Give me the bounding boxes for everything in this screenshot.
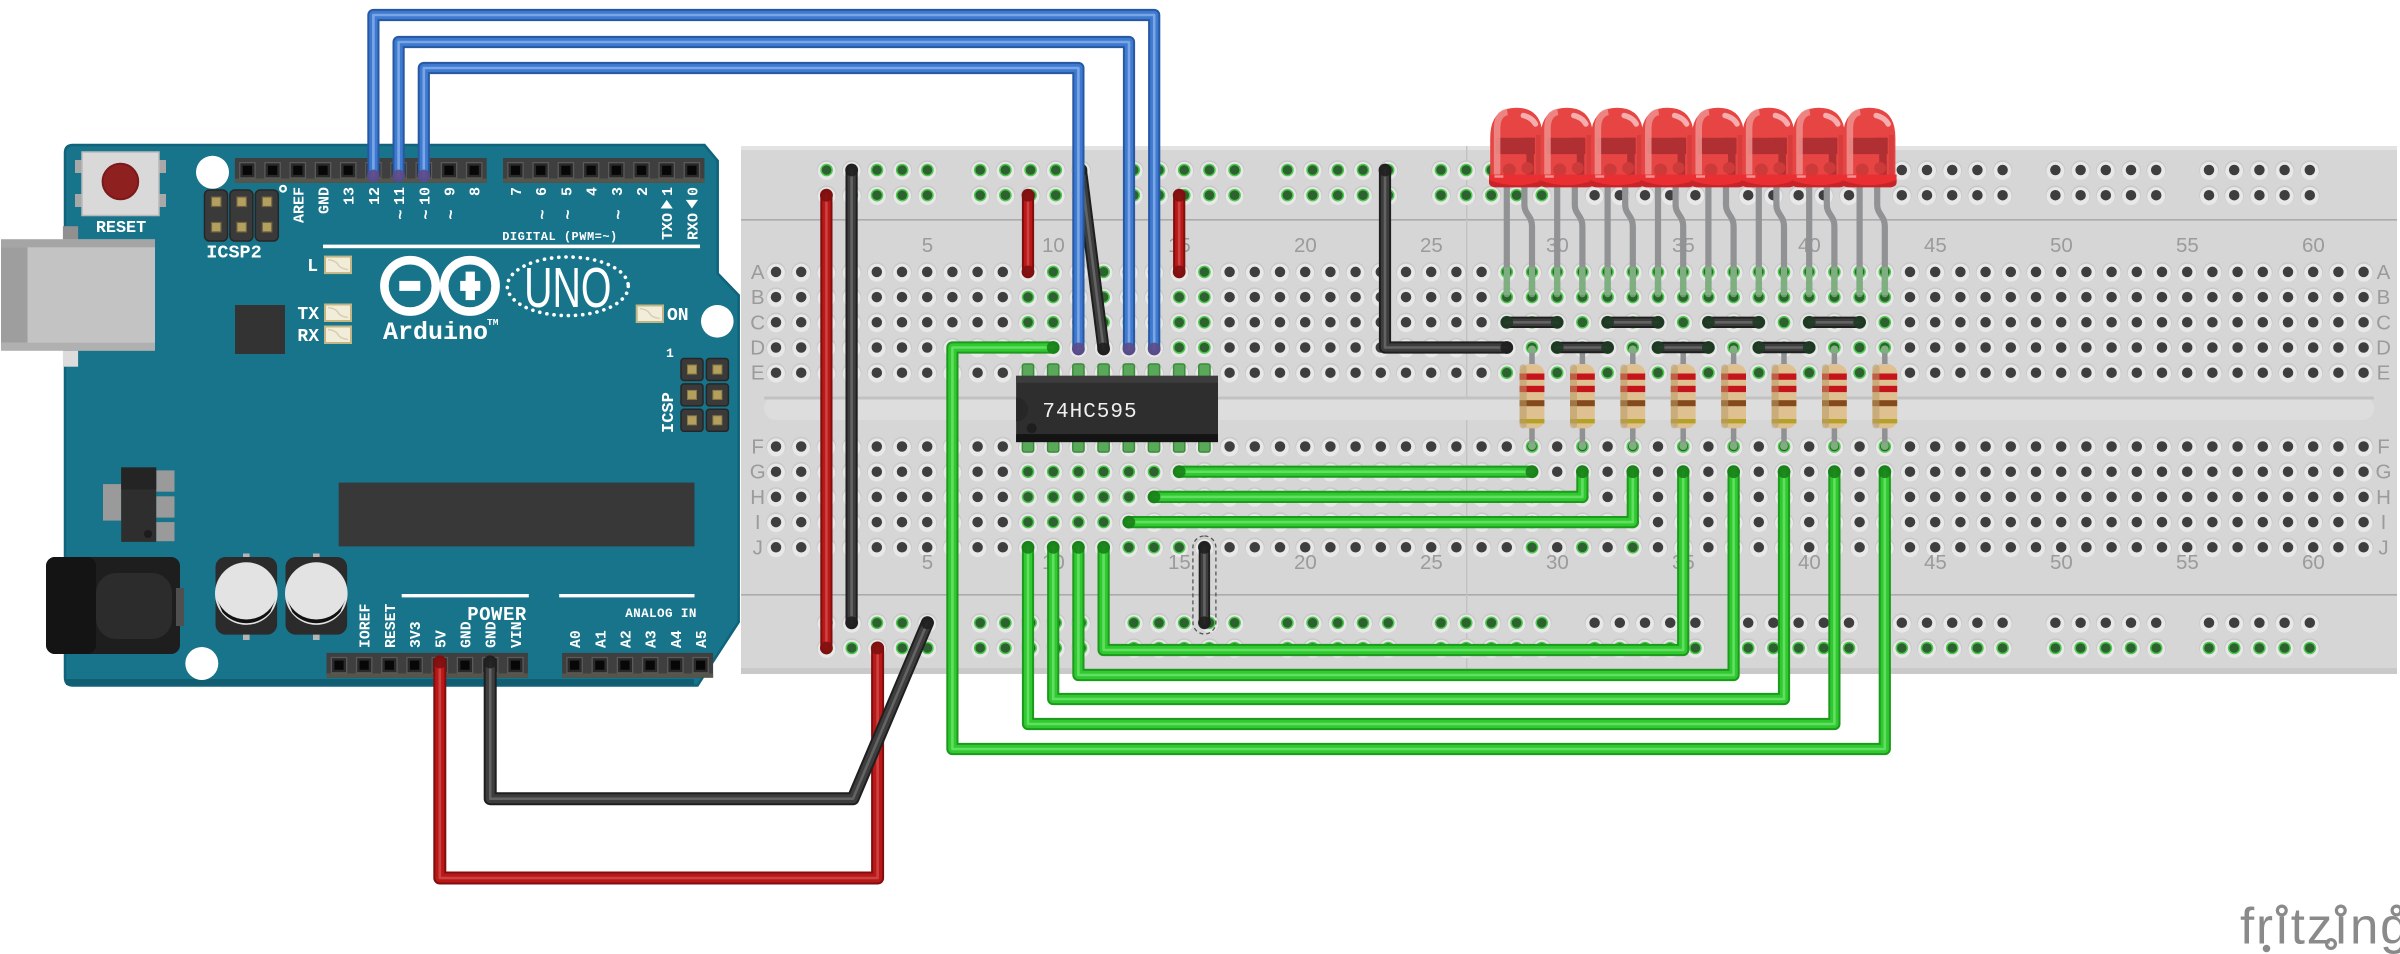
digital header 8-13 — [235, 158, 487, 183]
svg-text:F: F — [751, 436, 764, 459]
svg-text:IOREF: IOREF — [359, 604, 375, 648]
mounting hole — [185, 647, 218, 680]
svg-text:RESET: RESET — [384, 603, 400, 648]
chip — [235, 305, 285, 354]
wire green I13 to G33 — [1122, 465, 1639, 528]
Arduino UNO board — [65, 145, 739, 686]
power jack — [46, 557, 184, 654]
wire green J11 to G37 — [1072, 465, 1740, 675]
svg-text:J: J — [753, 536, 763, 559]
analog header — [562, 653, 713, 678]
svg-text:8: 8 — [468, 187, 485, 196]
svg-text:~: ~ — [418, 209, 437, 219]
digital header 0-7 — [503, 158, 704, 183]
svg-text:12: 12 — [367, 187, 384, 205]
wire red rail tie col1 — [820, 189, 833, 655]
svg-text:A0: A0 — [569, 630, 585, 648]
svg-text:A: A — [751, 261, 765, 284]
wire green G15 to G29 — [1173, 465, 1539, 478]
svg-text:2: 2 — [635, 187, 652, 196]
ICSP header — [681, 359, 728, 432]
LED LED6 red — [1741, 108, 1796, 295]
POWER label — [402, 594, 529, 597]
resistor R8 220ohm — [1872, 346, 1897, 451]
resistor R3 220ohm — [1620, 346, 1645, 451]
wire green J12 to G35 — [1097, 465, 1689, 650]
svg-text:~: ~ — [443, 209, 462, 219]
wire black rail tie col2 — [845, 164, 858, 630]
digital pin labels — [291, 187, 702, 240]
svg-text:A1: A1 — [594, 630, 610, 648]
power/analog pin labels — [359, 603, 711, 648]
svg-text:50: 50 — [2050, 234, 2073, 257]
svg-text:ICSP: ICSP — [660, 392, 679, 433]
svg-text:45: 45 — [1924, 551, 1947, 574]
resistor R1 220ohm — [1520, 346, 1545, 451]
breadboard labels — [750, 234, 2392, 574]
svg-text:ON: ON — [667, 306, 689, 326]
svg-text:0: 0 — [685, 187, 702, 196]
wire black jumper C36-C38 — [1702, 316, 1765, 329]
svg-text:~: ~ — [560, 209, 579, 219]
svg-text:45: 45 — [1924, 234, 1947, 257]
svg-text:I: I — [755, 511, 761, 534]
svg-text:5: 5 — [922, 551, 933, 574]
svg-text:55: 55 — [2176, 551, 2199, 574]
svg-text:~: ~ — [393, 209, 412, 219]
mounting hole — [701, 305, 734, 338]
LED LED8 red — [1842, 108, 1897, 295]
fritzing logo — [2240, 898, 2400, 954]
resistor R4 220ohm — [1671, 346, 1696, 451]
svg-text:30: 30 — [1546, 551, 1569, 574]
svg-text:10: 10 — [417, 187, 434, 205]
wire black jumper D30-D32 — [1551, 341, 1614, 354]
svg-text:5V: 5V — [434, 630, 450, 648]
wire blue pin11 to D13 — [392, 42, 1135, 355]
svg-text:C: C — [2376, 311, 2391, 334]
svg-text:frıtzıng: frıtzıng — [2240, 898, 2400, 954]
svg-text:A5: A5 — [695, 630, 711, 648]
wire black jumper C28-C30 — [1500, 316, 1563, 329]
USB connector — [1, 226, 155, 367]
wire black jumper D34-D36 — [1652, 341, 1715, 354]
wire green J9 to G41 — [1022, 465, 1841, 724]
LED LED4 red — [1640, 108, 1695, 295]
svg-text:9: 9 — [443, 187, 460, 196]
wire blue pin12 to D14 — [367, 15, 1161, 355]
svg-text:3: 3 — [610, 187, 627, 196]
svg-text:6: 6 — [534, 187, 551, 196]
svg-text:10: 10 — [1042, 234, 1065, 257]
svg-text:E: E — [2377, 362, 2391, 385]
reset button — [75, 152, 166, 216]
svg-text:RXO: RXO — [685, 213, 702, 240]
resistor R7 220ohm — [1822, 346, 1847, 451]
Arduino logo — [384, 260, 495, 311]
capacitor C2 — [285, 554, 348, 641]
LED LED2 red — [1539, 108, 1594, 295]
svg-text:D: D — [750, 337, 765, 360]
svg-text:60: 60 — [2302, 234, 2325, 257]
LED LED7 red — [1791, 108, 1846, 295]
capacitor C1 — [215, 554, 278, 641]
svg-text:J: J — [2378, 536, 2388, 559]
LED LED5 red — [1691, 108, 1746, 295]
LED L — [307, 257, 351, 277]
wire black jumper C32-C34 — [1601, 316, 1664, 329]
svg-text:60: 60 — [2302, 551, 2325, 574]
svg-text:20: 20 — [1294, 234, 1317, 257]
wire green J10 to G39 — [1047, 465, 1791, 699]
svg-text:RX: RX — [297, 327, 319, 347]
svg-text:55: 55 — [2176, 234, 2199, 257]
svg-text:25: 25 — [1420, 551, 1443, 574]
svg-text:B: B — [2377, 286, 2391, 309]
wire green H14 to G31 — [1148, 465, 1589, 503]
svg-text:UNO: UNO — [524, 257, 611, 320]
wire red 5V to A9 — [1022, 189, 1035, 278]
svg-text:RESET: RESET — [96, 219, 146, 238]
svg-text:F: F — [2377, 436, 2390, 459]
voltage regulator — [103, 467, 175, 542]
svg-text:H: H — [2376, 486, 2391, 509]
svg-text:5: 5 — [559, 187, 576, 196]
svg-text:13: 13 — [342, 187, 359, 205]
svg-text:Arduino: Arduino — [383, 318, 488, 347]
svg-text:GND: GND — [317, 187, 334, 214]
svg-text:TM: TM — [487, 317, 499, 328]
svg-text:G: G — [2376, 461, 2392, 484]
svg-text:7: 7 — [509, 187, 526, 196]
svg-text:74HC595: 74HC595 — [1042, 401, 1137, 424]
svg-text:A: A — [2377, 261, 2391, 284]
svg-text:1: 1 — [660, 187, 677, 196]
LED LED1 red — [1489, 108, 1544, 295]
svg-text:AREF: AREF — [291, 187, 308, 223]
svg-text:DIGITAL (PWM=~): DIGITAL (PWM=~) — [502, 230, 618, 244]
svg-text:20: 20 — [1294, 551, 1317, 574]
svg-text:1: 1 — [666, 346, 674, 361]
svg-text:A2: A2 — [620, 630, 636, 648]
svg-text:11: 11 — [392, 187, 409, 205]
svg-text:25: 25 — [1420, 234, 1443, 257]
svg-text:TXO: TXO — [660, 213, 677, 240]
mounting hole — [196, 156, 229, 189]
wire red 5V to bottom rail — [433, 642, 884, 878]
svg-text:ICSP2: ICSP2 — [206, 243, 262, 264]
svg-text:H: H — [750, 486, 765, 509]
svg-text:A4: A4 — [670, 630, 686, 648]
svg-text:E: E — [751, 362, 765, 385]
ANALOG IN label — [559, 594, 694, 597]
svg-text:C: C — [750, 311, 765, 334]
op IC U1 74HC595 — [1016, 364, 1218, 452]
svg-text:ANALOG IN: ANALOG IN — [625, 607, 697, 621]
resistor R2 220ohm — [1570, 346, 1595, 451]
wire black jumper C40-C42 — [1803, 316, 1866, 329]
svg-text:L: L — [307, 257, 318, 277]
LED ON — [637, 306, 689, 327]
power header — [327, 653, 528, 678]
breadboard — [741, 146, 2397, 674]
svg-text:~: ~ — [610, 209, 629, 219]
svg-text:4: 4 — [585, 187, 602, 196]
svg-text:3V3: 3V3 — [409, 621, 425, 648]
svg-text:~: ~ — [535, 209, 554, 219]
LED LED3 red — [1590, 108, 1645, 295]
wire black GND to bottom rail — [484, 616, 934, 798]
svg-text:15: 15 — [1168, 551, 1191, 574]
LED RX — [297, 327, 351, 348]
svg-text:50: 50 — [2050, 551, 2073, 574]
breadboard holes — [766, 160, 2373, 658]
wire black GND rail to D12 — [1075, 164, 1111, 356]
svg-text:POWER: POWER — [467, 604, 527, 626]
svg-text:I: I — [2381, 511, 2387, 534]
wire blue pin10 to D11 — [417, 68, 1084, 355]
wire black GND rail to D28 — [1379, 164, 1514, 354]
ICSP2 header — [205, 185, 288, 241]
wire red 5V to A15 — [1173, 189, 1186, 278]
svg-text:G: G — [750, 461, 766, 484]
svg-text:40: 40 — [1798, 551, 1821, 574]
wire green D10 to G43 — [952, 341, 1891, 749]
svg-text:A3: A3 — [645, 630, 661, 648]
svg-text:D: D — [2376, 337, 2391, 360]
resistor R6 220ohm — [1772, 346, 1797, 451]
svg-text:5: 5 — [922, 234, 933, 257]
IC socket strip — [339, 483, 695, 547]
wire black jumper J16 to GND rail — [1193, 536, 1216, 634]
resistor R5 220ohm — [1721, 346, 1746, 451]
LED TX — [297, 305, 351, 326]
wire black jumper D38-D40 — [1752, 341, 1815, 354]
UNO label — [507, 257, 628, 320]
svg-text:B: B — [751, 286, 765, 309]
svg-text:TX: TX — [297, 305, 319, 325]
